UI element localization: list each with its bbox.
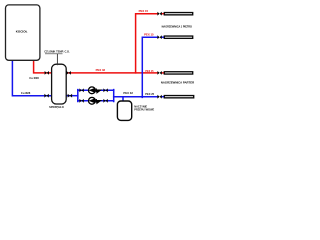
svg-text:PRZEPŁYWOWE: PRZEPŁYWOWE [134, 108, 154, 111]
svg-text:PEX 15: PEX 15 [144, 32, 154, 36]
svg-text:NAGRZEWNICA PARTER: NAGRZEWNICA PARTER [161, 81, 194, 85]
svg-text:NAGRZEWNICA 1 PIĘTRO: NAGRZEWNICA 1 PIĘTRO [162, 26, 192, 29]
svg-text:CZUJNIK TEMP. C.O.: CZUJNIK TEMP. C.O. [44, 49, 70, 53]
svg-text:PEX 15: PEX 15 [139, 9, 149, 13]
svg-text:Cu Ø28: Cu Ø28 [21, 91, 31, 95]
svg-text:PEX 15: PEX 15 [145, 70, 154, 73]
svg-text:KOCIOŁ: KOCIOŁ [16, 30, 28, 34]
svg-text:PEX 32: PEX 32 [123, 91, 133, 95]
svg-text:SPRZĘGŁO: SPRZĘGŁO [49, 105, 64, 109]
svg-text:PEX 25: PEX 25 [145, 92, 154, 96]
svg-text:PEX 32: PEX 32 [96, 68, 106, 72]
svg-text:Cu Ø28: Cu Ø28 [29, 76, 39, 80]
